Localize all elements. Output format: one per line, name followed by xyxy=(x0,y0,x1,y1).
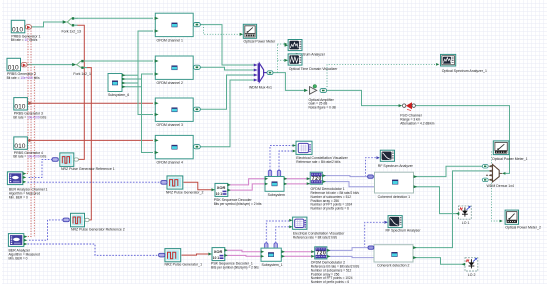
OFDM channel 1 xyxy=(155,13,201,36)
label BER Analyzer Channel 1 xyxy=(9,188,48,200)
FSO Channel xyxy=(399,102,416,110)
dotted monitor tap WDM Demux to Optical Power Meter_2 xyxy=(492,180,501,221)
wire OFDM Demodulator 2 to Subsystem_1 lower xyxy=(282,255,315,257)
svg-text:Number of prefix points = 6: Number of prefix points = 6 xyxy=(311,280,350,284)
Electrical Constellation Visualizer 2 xyxy=(289,217,307,229)
svg-text:Bits per symbol (bits/sym) = 2: Bits per symbol (bits/sym) = 2 bits xyxy=(211,265,259,269)
OFDM channel 3 xyxy=(155,98,201,121)
wire bus subsystem_6 to OFDM channel 2 and 4 second inputs xyxy=(142,74,154,153)
PRBS Generator 2 xyxy=(7,58,27,71)
wire PRBS1 to Fork 1x2_13 xyxy=(32,22,65,27)
dotted monitor tap Optical Amplifier to Optical Spectrum Analyzer_1 xyxy=(327,64,437,87)
svg-text:NRZ Pulse Generator Reference: NRZ Pulse Generator Reference 2 xyxy=(71,227,125,231)
Optical Amplifier xyxy=(304,85,327,95)
svg-text:Subsystem_1: Subsystem_1 xyxy=(262,263,283,267)
wire LO 1 to Coherent detection 1 xyxy=(415,187,457,214)
wire PRBS3 to OFDM channel 3 input 1 xyxy=(28,102,153,104)
svg-text:WDM Mux 4x1: WDM Mux 4x1 xyxy=(249,85,272,89)
svg-text:NRZ Pulse Generator_2: NRZ Pulse Generator_2 xyxy=(166,191,204,195)
svg-text:Subsystem: Subsystem xyxy=(268,193,285,197)
RF Spectrum Analyzer 1 xyxy=(380,150,394,161)
svg-text:RF Spectrum Analyzer: RF Spectrum Analyzer xyxy=(378,164,414,168)
svg-text:Attenuation = 4.2 dB/km: Attenuation = 4.2 dB/km xyxy=(400,122,434,126)
subsystem Subsystem xyxy=(265,170,287,191)
label PRBS Generator 4 xyxy=(13,151,46,159)
BER Analyzer Channel 1 xyxy=(7,172,26,185)
wire NRZ Pulse Generator_2 to PSK Sequence Decoder xyxy=(184,182,212,190)
wire Fork 1x2_13 bottom output down to NRZ Pulse Generator Reference 1 xyxy=(77,25,84,159)
Optical Power Meter_2 xyxy=(505,210,518,224)
wire Fork 1x2_1 top output to OFDM channel 2 input 1 xyxy=(87,60,154,62)
RF Spectrum Analyser 2 xyxy=(388,216,402,228)
wire Fork 1x2_1 bottom output down to NRZ Pulse Generator Reference 2 xyxy=(87,68,92,220)
wire WDM Mux output to Optical Amplifier xyxy=(273,73,305,91)
wire subsystem_6 output stub 2 xyxy=(122,78,142,80)
svg-text:Optical Power Meter: Optical Power Meter xyxy=(244,39,277,43)
Optical Spectrum Analyzer_1 xyxy=(441,54,456,66)
PRBS Generator 4 xyxy=(14,137,33,150)
wire WDM Demux output 2 to Coherent detection 2 xyxy=(414,171,490,248)
PRBS Generator 3 xyxy=(14,98,33,111)
dashed blue net NRZ Pulse Generator Reference 2 to BER Analyzer xyxy=(28,220,64,240)
wire Coherent detection 2 to OFDM Demodulator 2 upper xyxy=(328,248,368,251)
LO 2 xyxy=(462,258,478,271)
svg-text:Bit rate = 10 Gbit/s: Bit rate = 10 Gbit/s xyxy=(11,38,38,42)
wire Optical Amplifier output to FSO Channel xyxy=(327,90,399,105)
svg-text:XOR: XOR xyxy=(214,249,223,254)
label Optical Amplifier xyxy=(309,98,336,110)
svg-text:010: 010 xyxy=(12,26,23,33)
label PSK Sequence Decoder xyxy=(214,198,262,206)
wire WDM Demux output 1 to Coherent detection 1 xyxy=(415,166,483,176)
Optical Power Meter_1 xyxy=(493,141,509,155)
WDM Demux 1x4 xyxy=(482,164,505,182)
wire Subsystem_1 to PSK Sequence Decoder_1 lower xyxy=(225,254,261,257)
svg-text:Reference rate = Bit rate/2 b: Reference rate = Bit rate/2 bit/s xyxy=(296,160,341,164)
dashed blue net Subsystem_1 to Electrical Constellation Visualizer 2 xyxy=(266,221,289,243)
wire Coherent detection 2 to OFDM Demodulator 2 lower xyxy=(328,256,374,257)
NRZ Pulse Generator_2 xyxy=(161,176,183,189)
svg-text:LO 2: LO 2 xyxy=(468,273,476,277)
label FSO Channel xyxy=(400,113,434,125)
wire bus subsystem_6 to OFDM channel 1 and 3 second inputs xyxy=(138,31,153,115)
svg-text:Optical Power Meter_2: Optical Power Meter_2 xyxy=(505,226,541,230)
label PSK Sequence Decoder_1 xyxy=(211,261,259,269)
svg-text:10 1: 10 1 xyxy=(216,192,222,196)
svg-text:Optical Time Domain Visualizer: Optical Time Domain Visualizer xyxy=(289,67,338,71)
wire OFDM Demodulator 2 to Subsystem_1 upper xyxy=(282,251,315,253)
dashed blue net Subsystem to Electrical Constellation Visualizer 1 xyxy=(270,146,295,171)
svg-text:10 1: 10 1 xyxy=(213,256,219,260)
dashed red net PRBS1 to BER Analyzer Channel 1 xyxy=(25,28,29,174)
dashed red net PRBS2 reference xyxy=(33,67,35,237)
svg-text:Bit rate = 10e+009 bit/s: Bit rate = 10e+009 bit/s xyxy=(13,115,46,119)
svg-text:Bits per symbol (bits/sym) = 2: Bits per symbol (bits/sym) = 2 bits xyxy=(214,202,262,206)
wire FSO Channel output to WDM Demux input xyxy=(416,106,510,174)
Fork 1x2_1 xyxy=(72,60,87,69)
Coherent detection 2 xyxy=(368,245,417,262)
wire Subsystem_1 to PSK Sequence Decoder_1 upper xyxy=(225,250,261,251)
NRZ Pulse Generator Reference 1 xyxy=(52,153,78,167)
label OFDM Demodulator 1 with parameters xyxy=(311,187,360,211)
NRZ Pulse Generator Reference 2 xyxy=(63,213,89,227)
wire subsystem_6 output stub 3 xyxy=(122,82,138,84)
Fork 1x2_13 xyxy=(63,17,78,26)
dashed blue net BER Analyzer Channel 1 to NRZ Pulse Generator_2 xyxy=(28,181,162,183)
wire PRBS4 to OFDM channel 4 input 1 xyxy=(28,139,153,141)
wire OFDM channel 3 output to WDM Mux input 3 xyxy=(201,75,255,109)
svg-text:Bit rate = 10e+009 bit/s: Bit rate = 10e+009 bit/s xyxy=(13,155,46,159)
svg-text:Min. BER = 0: Min. BER = 0 xyxy=(9,196,28,200)
PRBS Generator 1 xyxy=(11,20,31,33)
svg-text:WDM Demux 1x4: WDM Demux 1x4 xyxy=(487,184,514,188)
svg-text:Fork 1x2_1: Fork 1x2_1 xyxy=(73,72,91,76)
svg-text:720: 720 xyxy=(312,176,322,182)
label BER Analyzer xyxy=(9,249,40,261)
wire Coherent detection 1 to OFDM Demodulator 1 lower xyxy=(323,182,374,187)
svg-text:Coherent detection 2: Coherent detection 2 xyxy=(377,264,410,268)
dotted monitor tap WDM Demux to Optical Power Meter_1 xyxy=(492,152,494,166)
wire Coherent detection 1 to OFDM Demodulator 1 upper xyxy=(323,176,368,177)
svg-text:LO 1: LO 1 xyxy=(462,221,470,225)
svg-text:Number of prefix points = 6: Number of prefix points = 6 xyxy=(311,207,350,211)
svg-text:Coherent detection 1: Coherent detection 1 xyxy=(378,195,411,199)
svg-text:Noise figure = 0 dB: Noise figure = 0 dB xyxy=(309,105,336,109)
NRZ Pulse Generator_1 xyxy=(159,249,181,262)
wire NRZ Pulse Generator_1 to PSK Sequence Decoder_1 xyxy=(182,254,209,255)
wire OFDM channel 1 output to WDM Mux input 1 xyxy=(201,25,255,65)
wire subsystem_6 output stub 4 xyxy=(122,86,142,88)
svg-text:OFDM channel 3: OFDM channel 3 xyxy=(157,123,184,127)
wire OFDM channel 4 output to WDM Mux input 4 xyxy=(201,80,255,147)
PSK Sequence Decoder_1 xyxy=(208,248,227,261)
OFDM Demodulator 1 xyxy=(307,172,326,185)
dashed tap RF Spectrum Analyser 2 xyxy=(365,222,387,247)
wire OFDM Demodulator 1 to Subsystem upper xyxy=(284,178,310,180)
svg-text:Bit rate = 10e+009 bit/s: Bit rate = 10e+009 bit/s xyxy=(7,76,40,80)
svg-text:010: 010 xyxy=(14,104,25,111)
subsystem Subsystem_6 xyxy=(108,74,126,92)
svg-text:OFDM channel 4: OFDM channel 4 xyxy=(157,161,184,165)
label PRBS Generator 1 xyxy=(11,34,41,42)
Optical Power Meter xyxy=(240,24,257,38)
svg-text:Fork 1x2_13: Fork 1x2_13 xyxy=(62,29,82,33)
svg-text:010: 010 xyxy=(14,143,25,150)
LO 1 xyxy=(456,206,472,219)
svg-text:010: 010 xyxy=(8,64,19,71)
dashed blue net BER Analyzer to NRZ Pulse Generator_1 xyxy=(28,244,159,255)
OFDM channel 2 xyxy=(155,56,201,79)
wire subsystem_6 output stub 1 xyxy=(122,74,138,76)
svg-text:Reference rate = Bit rate/2 b: Reference rate = Bit rate/2 bit/s xyxy=(293,236,338,240)
svg-text:Subsystem_6: Subsystem_6 xyxy=(108,93,129,97)
wire OFDM channel 2 output to WDM Mux input 2 xyxy=(201,67,255,70)
Electrical Constellation Visualizer 1 xyxy=(293,141,312,154)
wire PRBS2 to Fork 1x2_1 xyxy=(27,64,74,66)
PSK Sequence Decoder xyxy=(211,183,230,196)
BER Analyzer xyxy=(8,234,27,247)
wire OFDM Demodulator 1 to Subsystem lower xyxy=(284,183,310,185)
OFDM Demodulator 2 xyxy=(311,247,330,259)
svg-text:OFDM channel 1: OFDM channel 1 xyxy=(157,38,184,42)
OFDM channel 4 xyxy=(155,135,201,158)
subsystem Subsystem_1 xyxy=(261,243,285,261)
svg-text:Min. BER = 0: Min. BER = 0 xyxy=(9,257,28,261)
label PRBS Generator 2 xyxy=(7,72,40,80)
wire Fork 1x2_13 top output to OFDM channel 1 input 1 xyxy=(77,17,153,19)
label Electrical Constellation Visualizer 1 xyxy=(296,156,348,164)
svg-text:Optical Spectrum Analyzer_1: Optical Spectrum Analyzer_1 xyxy=(442,69,487,73)
wire LO 2 to Coherent detection 2 xyxy=(414,258,465,265)
svg-text:NRZ Pulse Generator Reference: NRZ Pulse Generator Reference 1 xyxy=(61,167,115,171)
wire Subsystem to PSK Sequence Decoder upper xyxy=(228,179,265,185)
svg-text:XOR: XOR xyxy=(217,185,226,190)
WDM Mux 4x1 xyxy=(254,63,273,82)
dotted monitor tap OFDM channel 1 to Optical Power Meter xyxy=(201,25,241,35)
Optical Time Domain Visualizer xyxy=(285,54,302,65)
label PRBS Generator 3 xyxy=(13,112,46,120)
svg-text:720: 720 xyxy=(316,251,326,257)
wire Subsystem to PSK Sequence Decoder lower xyxy=(228,184,265,190)
label Electrical Constellation Visualizer 2 xyxy=(293,232,345,240)
dashed blue net NRZ Pulse Generator Reference 1 to BER Analyzer Channel 1 xyxy=(28,159,53,177)
svg-text:OFDM channel 2: OFDM channel 2 xyxy=(157,81,184,85)
dashed tap RF Spectrum Analyzer 1 xyxy=(366,158,380,176)
Coherent detection 1 xyxy=(368,172,418,193)
svg-text:NRZ Pulse Generator_1: NRZ Pulse Generator_1 xyxy=(165,263,203,267)
dotted monitor tap to Spectrum Analyzer and Optical Time Domain Visualizer xyxy=(278,44,286,73)
svg-text:RF Spectrum Analyser: RF Spectrum Analyser xyxy=(386,229,422,233)
dashed red net PRBS1 to BER Analyzer xyxy=(24,28,31,237)
label OFDM Demodulator 2 with parameters xyxy=(311,261,360,285)
svg-text:Optical Power Meter_1: Optical Power Meter_1 xyxy=(492,157,528,161)
Spectrum Analyzer xyxy=(285,40,302,51)
